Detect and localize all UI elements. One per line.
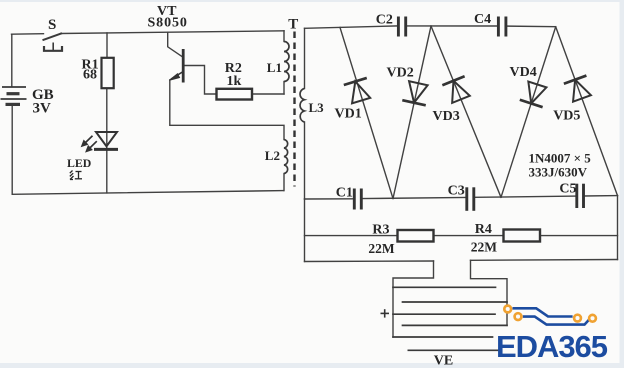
svg-text:L2: L2 [265, 148, 280, 163]
capacitor C3 [467, 187, 474, 211]
svg-text:EDA365: EDA365 [496, 329, 608, 364]
LED D1 [94, 132, 118, 149]
transistor VT base bar [182, 49, 185, 83]
wire bottom rail seg4 [584, 195, 618, 197]
wire R1 to LED [106, 88, 108, 149]
resistor R1 [102, 58, 114, 88]
switch S [43, 33, 63, 51]
resistor R3 [398, 230, 434, 242]
wire battery bottom vertical [11, 105, 13, 195]
capacitor C1 [354, 189, 361, 210]
transformer winding L1 [284, 42, 289, 82]
wire top rail seg3 [506, 25, 556, 28]
svg-text:LED: LED [67, 156, 91, 170]
diode VD4 [520, 81, 549, 107]
wire left feed to electrode [393, 261, 434, 337]
capacitor C5 [577, 184, 584, 208]
transistor emitter with arrow [169, 72, 183, 81]
diode VD1 [344, 78, 373, 104]
svg-text:R4: R4 [475, 222, 492, 237]
wire emitter vertical and across to L2 [170, 80, 284, 140]
wire L3 top vertical [304, 28, 306, 88]
wire collector vertical [168, 32, 183, 57]
battery GB [1, 87, 27, 104]
svg-text:333J/630V: 333J/630V [529, 164, 588, 179]
plus sign [381, 309, 390, 317]
diagonal VD2 branch [393, 26, 431, 199]
svg-text:C5: C5 [559, 181, 576, 196]
diode VD5 [564, 76, 593, 103]
wire top-left to switch [12, 33, 44, 36]
diagonal VD1 branch [340, 27, 393, 198]
svg-text:T: T [288, 16, 298, 32]
electrode stack plates [393, 287, 507, 337]
wire L2 bottom connection [283, 174, 285, 191]
svg-text:3V: 3V [33, 101, 52, 117]
wire switch to L1 top [61, 31, 284, 34]
capacitor C2 [398, 17, 405, 37]
label hong (red) drawn glyph [70, 171, 82, 180]
diode VD3 [442, 76, 472, 104]
transformer winding L2 [284, 140, 288, 174]
wire R1 branch [106, 33, 108, 58]
wire top rail seg1 [305, 26, 399, 28]
wire bottom rail left circuit [12, 191, 283, 195]
svg-text:C2: C2 [376, 12, 393, 27]
wire output line right [471, 259, 618, 262]
svg-text:VD3: VD3 [433, 109, 460, 124]
svg-text:S: S [48, 17, 56, 33]
svg-text:VD4: VD4 [510, 65, 537, 80]
wire output line left [305, 260, 434, 263]
diagonal VD4 branch [501, 27, 556, 198]
svg-text:VE: VE [434, 353, 453, 368]
wire L1 bottom connection [283, 82, 285, 95]
wire divider line left [305, 235, 398, 237]
transformer winding L3 [300, 89, 304, 123]
svg-text:1k: 1k [227, 74, 242, 89]
svg-text:C3: C3 [448, 184, 465, 199]
svg-text:1N4007 × 5: 1N4007 × 5 [529, 151, 592, 166]
svg-text:68: 68 [83, 68, 97, 83]
svg-text:L1: L1 [267, 60, 282, 75]
wire right feed to electrode [471, 260, 508, 325]
svg-text:22M: 22M [471, 239, 498, 254]
LED light arrows [82, 136, 97, 152]
svg-text:R3: R3 [372, 223, 389, 238]
svg-text:VD5: VD5 [553, 108, 580, 123]
wire L1 top connection [283, 31, 285, 42]
wire LED to bottom [106, 149, 108, 193]
diode VD2 [402, 81, 430, 106]
wire right edge down [617, 196, 619, 260]
transformer core (dashed) [293, 32, 295, 187]
diagonal VD3 branch [431, 26, 501, 197]
resistor R2 [217, 89, 253, 100]
svg-text:L3: L3 [309, 100, 325, 115]
resistor R4 [504, 230, 541, 242]
svg-text:C4: C4 [474, 12, 491, 27]
wire top rail seg2 [406, 25, 498, 27]
wire bottom rail seg3 [474, 196, 577, 197]
svg-text:VD1: VD1 [335, 107, 362, 122]
wire bottom rail seg1 [305, 198, 355, 200]
diagonal VD5 branch [556, 27, 618, 196]
wire base to R2 [184, 66, 217, 95]
wire L3 bottom vertical [304, 122, 306, 199]
wire R2 to L1 bottom [252, 93, 284, 95]
wire bottom rail seg2 [361, 197, 466, 198]
EDA365 logo traces [513, 308, 591, 324]
svg-text:VD2: VD2 [387, 65, 414, 80]
svg-text:S8050: S8050 [148, 16, 188, 31]
electrode VE plate [408, 349, 502, 351]
wire left edge down [304, 199, 306, 262]
capacitor C4 [498, 17, 506, 37]
wire divider line mid [434, 235, 504, 237]
wire divider line right [540, 235, 618, 237]
svg-text:22M: 22M [368, 241, 395, 256]
svg-text:C1: C1 [336, 186, 353, 201]
wire left vertical battery top [11, 34, 13, 86]
EDA365 logo pads [504, 306, 596, 322]
